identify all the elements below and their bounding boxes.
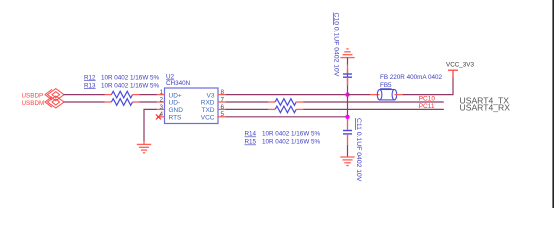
wire R13 to U2 pin 2: [139, 101, 157, 103]
svg-text:RXD: RXD: [201, 100, 215, 107]
svg-text:C10 0.1UF 0402 10V: C10 0.1UF 0402 10V: [333, 13, 340, 77]
svg-text:UD+: UD+: [169, 92, 182, 99]
svg-text:10R 0402 1/16W 5%: 10R 0402 1/16W 5%: [101, 82, 160, 89]
U2 pin 6 stub: [218, 108, 225, 110]
wire R14 to PC10: [303, 101, 444, 103]
capacitor C10: [343, 65, 352, 86]
U2 pin 2 stub: [157, 101, 164, 103]
U2 pin 5 stub: [218, 116, 225, 118]
sheet border right edge: [552, 0, 554, 208]
power flag VCC_3V3: [448, 70, 458, 77]
svg-text:3: 3: [159, 104, 163, 111]
wire ground to C10: [347, 58, 349, 65]
svg-text:R15: R15: [245, 139, 257, 146]
wire USBDM to R13: [64, 101, 105, 103]
port USBDP symbol: [45, 89, 64, 101]
svg-text:CH340N: CH340N: [166, 80, 191, 87]
U2 pin 8 stub: [218, 94, 225, 96]
wire USBDP to R12: [64, 94, 105, 96]
junction dot on V3 line: [345, 92, 349, 96]
U2 pin 4 stub: [157, 116, 164, 118]
wire VCC pin5 to node: [225, 116, 347, 118]
svg-text:VCC: VCC: [201, 115, 215, 122]
junction dot on VCC line: [345, 115, 349, 119]
U2 pin 4 no-connect X: [156, 114, 161, 119]
wire RXD pin7 to R14: [225, 101, 268, 103]
svg-text:R12: R12: [84, 74, 96, 81]
ground (left, under U2 GND): [137, 141, 151, 153]
svg-text:2: 2: [159, 96, 163, 103]
wire C11 to ground: [347, 145, 349, 157]
U2 pin 3 stub: [157, 108, 164, 110]
svg-text:PC10: PC10: [419, 96, 436, 103]
svg-text:RTS: RTS: [169, 115, 183, 122]
svg-text:10R 0402 1/16W 5%: 10R 0402 1/16W 5%: [262, 131, 321, 138]
port USBDM symbol: [45, 96, 64, 108]
svg-text:4: 4: [159, 111, 163, 118]
svg-text:V3: V3: [207, 92, 215, 99]
svg-text:6: 6: [221, 104, 225, 111]
svg-text:USART4_RX: USART4_RX: [460, 102, 511, 112]
svg-text:TXD: TXD: [202, 107, 215, 114]
U2 pin 1 stub: [157, 94, 164, 96]
capacitor C11: [343, 119, 352, 145]
svg-text:C11 0.1UF 0402 10V: C11 0.1UF 0402 10V: [355, 118, 362, 182]
wire R12 to U2 pin 1: [139, 94, 157, 96]
svg-text:R14: R14: [245, 131, 257, 138]
ground (inverted, above C10): [340, 49, 354, 58]
wire TXD pin6 to R15: [225, 108, 268, 110]
resistor R12: [105, 91, 140, 98]
svg-text:UD-: UD-: [169, 100, 181, 107]
svg-text:GND: GND: [169, 107, 184, 114]
wire FB5 to VCC_3V3: [403, 78, 453, 95]
svg-text:VCC_3V3: VCC_3V3: [446, 61, 474, 68]
svg-text:10R 0402 1/16W 5%: 10R 0402 1/16W 5%: [262, 139, 321, 146]
svg-text:PC11: PC11: [419, 103, 435, 110]
svg-text:USBDM: USBDM: [22, 100, 45, 107]
svg-text:7: 7: [221, 96, 225, 103]
ground (below C11): [340, 157, 354, 166]
svg-text:FB5: FB5: [380, 82, 392, 89]
resistor R13: [105, 99, 140, 106]
svg-text:1: 1: [159, 89, 163, 96]
svg-text:FB 220R 400mA 0402: FB 220R 400mA 0402: [380, 74, 442, 81]
svg-text:USBDP: USBDP: [22, 93, 44, 100]
ferrite bead FB5: [370, 90, 403, 100]
wire U2 pin 3 GND to ground: [144, 109, 157, 141]
svg-text:8: 8: [221, 89, 225, 96]
op-amp U2 CH340N body: [165, 88, 219, 124]
svg-text:5: 5: [221, 111, 225, 118]
resistor R14: [268, 99, 303, 106]
svg-text:R13: R13: [84, 82, 96, 89]
node vertical trunk wire: [347, 69, 349, 119]
wire V3 pin8 to node: [225, 94, 347, 96]
svg-text:10R 0402 1/16W 5%: 10R 0402 1/16W 5%: [101, 74, 160, 81]
U2 pin 7 stub: [218, 101, 225, 103]
wire R15 to PC11: [303, 108, 444, 110]
resistor R15: [268, 106, 303, 113]
wire node to FB5: [348, 94, 371, 96]
